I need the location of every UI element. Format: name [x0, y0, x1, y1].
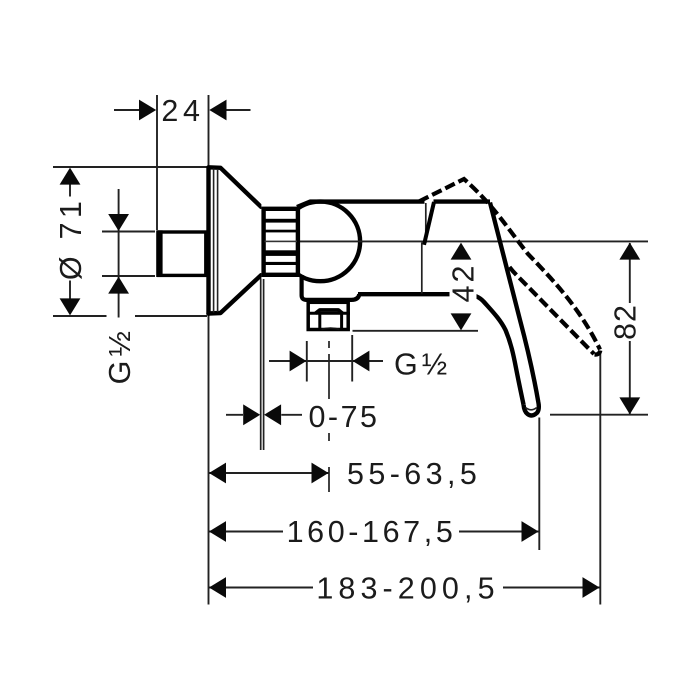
dashed handle lower edge [510, 267, 595, 354]
dashed handle tip [595, 351, 601, 355]
dim 24 right extension line / upper part of left datum [208, 95, 210, 166]
ring rib 2 [265, 230, 298, 233]
flange rim inner line b [217, 169, 219, 312]
svg-text:183-200,5: 183-200,5 [316, 572, 499, 606]
G12 right dim line [269, 360, 383, 362]
G12 left bottom arrow [108, 277, 129, 294]
dim 82 bottom arrow [619, 397, 640, 414]
body notch line [425, 203, 427, 243]
dim 42 top arrow [451, 243, 472, 260]
dim 24 left tail [114, 109, 140, 111]
left datum extension line (below flange) [208, 316, 210, 605]
dia71 top arrow [60, 168, 81, 185]
label dia 71 [54, 197, 88, 281]
dim 82 bottom extension line [550, 414, 648, 416]
G12 right right arrow [353, 351, 370, 372]
dim 183-200.5 line [209, 587, 601, 589]
dim 82 top arrow [619, 243, 640, 260]
ring axis line [265, 241, 298, 243]
svg-text:24: 24 [161, 94, 204, 128]
handle right edge and tip [490, 203, 539, 416]
dim 0-75 right arrow [264, 404, 281, 425]
ring rib 4 [265, 262, 298, 265]
nut bottom chamfer arc [322, 328, 340, 329]
dim 183-200.5 left arrow [209, 577, 226, 598]
label 0-75 [303, 400, 383, 434]
dim 42 bottom arrow [451, 313, 472, 330]
dia71 top extension line [53, 166, 207, 168]
body bottom right edge into handle lower edge [358, 294, 524, 404]
dim 160-167.5 right arrow [522, 521, 539, 542]
handle base boundary line [421, 243, 423, 294]
svg-text:0-75: 0-75 [308, 400, 379, 434]
dim 42 bottom extension line [353, 330, 479, 332]
svg-text:55-63,5: 55-63,5 [347, 457, 481, 491]
nut facet line left [318, 313, 321, 330]
dia71 dimension line [69, 184, 71, 299]
label 82 [609, 303, 643, 341]
wall line a [260, 277, 262, 450]
dim 24 right tail [226, 109, 251, 111]
dim 0-75 left arrow [243, 404, 260, 425]
dia71 bottom extension line left seg [53, 315, 107, 317]
svg-text:Ø 71: Ø 71 [54, 197, 88, 280]
pipe connector thick face [156, 230, 162, 277]
dia71 bottom arrow [60, 298, 81, 315]
nut facet line right [340, 313, 343, 330]
nut divider [307, 312, 351, 315]
G12 left top arrow [108, 214, 129, 231]
dim 55-63.5 right arrow [312, 463, 329, 484]
svg-text:160-167,5: 160-167,5 [287, 515, 457, 549]
dim 24 left extension line [156, 95, 158, 230]
G12 left dimension line [118, 189, 120, 318]
svg-text:42: 42 [447, 263, 481, 303]
dim 183-200.5 right arrow [583, 577, 600, 598]
svg-text:G ½: G ½ [103, 332, 137, 385]
centerline over circle [280, 240, 363, 242]
label 183-200.5 [313, 570, 503, 606]
G12 right right extension line [351, 335, 353, 382]
nut chamfer bar [316, 310, 343, 313]
dim 160-167.5 line [209, 531, 539, 533]
G12 left top extension line [102, 231, 155, 233]
label 42 [447, 263, 481, 303]
outlet hex nut [307, 302, 351, 330]
centerline through valve axis [262, 240, 648, 242]
ring rib 1 [265, 219, 298, 223]
dashed handle tip extension line [599, 353, 601, 605]
nut centerline dashed [328, 341, 330, 492]
body top edge [297, 202, 425, 207]
dim 55-63.5 left arrow [209, 463, 226, 484]
valve body circle [281, 202, 361, 282]
dim 55-63.5 line [209, 472, 330, 474]
ring rib 3 [265, 250, 298, 256]
dia71 bottom extension line right seg [135, 315, 207, 317]
dim 24 left arrow [139, 100, 156, 121]
pipe connector G12 left [159, 232, 206, 275]
dim 0-75 right tail [281, 414, 302, 416]
dim 160-167.5 left arrow [209, 521, 226, 542]
svg-text:82: 82 [609, 304, 643, 340]
label 160-167.5 [283, 514, 459, 549]
label G12 left [103, 332, 137, 385]
handle cap top edge [434, 199, 491, 203]
G12 left bottom extension line [102, 275, 155, 277]
svg-text:G ½: G ½ [394, 348, 447, 382]
body bottom left and outlet shoulder [302, 275, 360, 300]
dashed handle upper edge [419, 179, 600, 350]
dim 24 right arrow [209, 100, 226, 121]
handle tip extension line [538, 418, 540, 551]
handle tip inner seam [526, 408, 537, 410]
flange rim inner line a [213, 169, 215, 313]
G12 right left extension line [306, 341, 308, 382]
dim 82 dimension line [629, 243, 631, 414]
wall flange cone [209, 167, 262, 313]
G12 right left arrow [290, 351, 307, 372]
wall line b [263, 277, 265, 450]
dim 0-75 left tail [226, 414, 243, 416]
handle cap left edge [424, 202, 434, 245]
knurled ring [261, 204, 299, 279]
